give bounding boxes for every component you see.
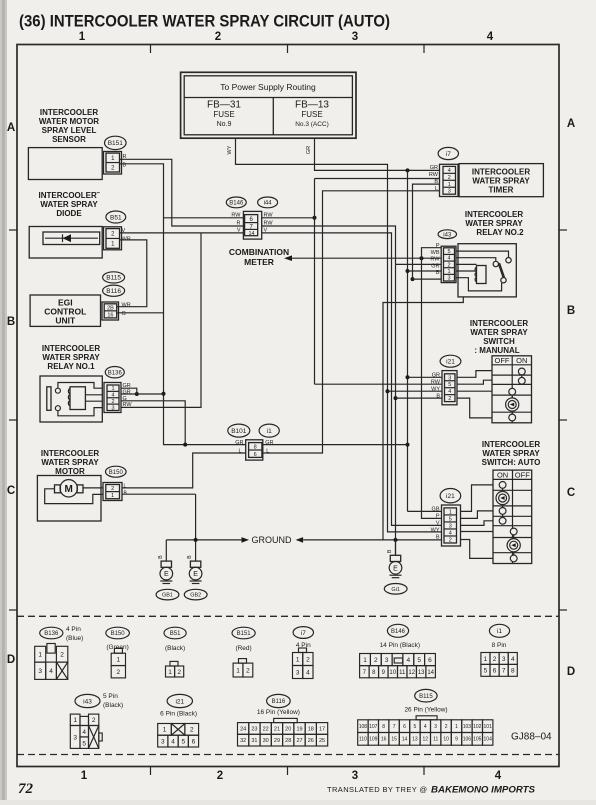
svg-text:101: 101	[484, 724, 493, 730]
legend oval B115	[415, 689, 437, 702]
svg-text:FUSE: FUSE	[301, 110, 322, 119]
wire RW to manual switch pin5	[315, 383, 443, 385]
svg-text:14: 14	[427, 670, 434, 676]
svg-text:16: 16	[381, 737, 387, 743]
svg-text:RW: RW	[429, 172, 439, 178]
svg-text:3: 3	[502, 656, 506, 663]
svg-text:13: 13	[418, 670, 425, 676]
relay2 contact lever	[456, 278, 502, 291]
svg-text:4: 4	[82, 729, 86, 736]
svg-text:(Black): (Black)	[165, 645, 185, 652]
svg-text:14: 14	[248, 231, 254, 237]
svg-text:SWITCH: SWITCH	[483, 337, 515, 346]
svg-text:E: E	[164, 571, 169, 578]
svg-text:TIMER: TIMER	[489, 186, 514, 195]
svg-text:B146: B146	[391, 629, 406, 635]
svg-text:3: 3	[38, 668, 42, 675]
svg-text:WATER SPRAY: WATER SPRAY	[472, 177, 530, 186]
svg-text:GR: GR	[306, 146, 312, 154]
wire B bus down	[395, 264, 397, 555]
motor internal wires	[45, 489, 103, 504]
svg-text:4: 4	[424, 724, 427, 730]
wire RW bus down	[314, 179, 316, 385]
svg-text:(Black): (Black)	[103, 702, 123, 709]
svg-text:4: 4	[449, 530, 452, 536]
legend connector B136 4 pin	[35, 646, 46, 662]
svg-text:1: 1	[484, 656, 488, 663]
svg-text:TRANSLATED BY TREY @: TRANSLATED BY TREY @	[327, 785, 428, 794]
svg-text:6: 6	[428, 657, 432, 664]
svg-text:WATER MOTOR: WATER MOTOR	[39, 117, 99, 126]
svg-text:1: 1	[448, 182, 451, 188]
svg-text:DIODE: DIODE	[56, 209, 82, 218]
svg-text:104: 104	[484, 737, 493, 743]
relay2 internals	[456, 251, 509, 257]
svg-text:(Blue): (Blue)	[66, 635, 83, 642]
svg-text:6 Pin (Black): 6 Pin (Black)	[160, 711, 197, 718]
svg-text:No.9: No.9	[217, 121, 232, 128]
svg-text:B115: B115	[419, 694, 433, 700]
svg-text:3: 3	[447, 276, 450, 282]
auto switch contacts ON column	[502, 488, 504, 491]
legend connector B151	[233, 663, 243, 677]
svg-text:OFF: OFF	[515, 470, 530, 479]
relay1 internals	[47, 387, 51, 411]
svg-text:4: 4	[448, 389, 451, 395]
svg-text:14 Pin (Black): 14 Pin (Black)	[380, 642, 420, 649]
motor box	[37, 476, 101, 522]
svg-text:4: 4	[448, 168, 451, 174]
svg-text:1: 1	[111, 386, 114, 392]
svg-text:WATER SPRAY: WATER SPRAY	[40, 200, 98, 209]
wire relay1 pin2 G	[121, 401, 185, 445]
svg-text:25: 25	[319, 738, 325, 744]
wire relay1 pin1 jumper	[121, 388, 137, 394]
legend connector i21 6 pin	[158, 724, 172, 736]
svg-text:1: 1	[447, 269, 450, 275]
ground oval GB2	[184, 589, 207, 600]
svg-text:108: 108	[359, 724, 368, 730]
sensor connector pins 1 2	[104, 152, 122, 175]
diode connector pins 2 1	[104, 227, 122, 250]
wire motor B to ground	[122, 493, 196, 495]
svg-text:2: 2	[306, 656, 310, 663]
svg-text:8: 8	[382, 724, 385, 730]
svg-text:B150: B150	[109, 470, 124, 476]
connector oval B150	[106, 466, 127, 477]
svg-text:GB2: GB2	[190, 593, 201, 599]
svg-text:1: 1	[111, 493, 114, 499]
legend connector B150	[111, 653, 125, 665]
svg-text:4: 4	[487, 31, 494, 43]
svg-text:1: 1	[163, 727, 167, 734]
svg-text:INTERCOOLER: INTERCOOLER	[465, 210, 523, 219]
svg-text:WB: WB	[431, 250, 440, 256]
svg-text:5 Pin: 5 Pin	[103, 693, 118, 700]
svg-text:2: 2	[217, 770, 223, 782]
svg-text:5: 5	[417, 657, 421, 664]
svg-text:4: 4	[171, 738, 175, 745]
svg-text:WATER SPRAY: WATER SPRAY	[482, 449, 540, 458]
svg-text:5: 5	[447, 249, 450, 255]
svg-text:32: 32	[240, 738, 246, 744]
svg-text:i7: i7	[446, 151, 451, 158]
svg-text:ON: ON	[497, 470, 508, 479]
svg-text:2: 2	[177, 669, 181, 676]
svg-text:No.3 (ACC): No.3 (ACC)	[295, 121, 329, 128]
connector oval B101	[228, 424, 250, 437]
svg-text:7: 7	[393, 724, 396, 730]
svg-text:RW: RW	[430, 257, 440, 263]
svg-text:WATER SPRAY: WATER SPRAY	[42, 353, 100, 362]
svg-text:2: 2	[190, 727, 194, 734]
svg-text:INTERCOOLER˜: INTERCOOLER˜	[39, 191, 100, 200]
wire motor L to B101	[122, 453, 246, 488]
svg-text:SENSOR: SENSOR	[52, 135, 86, 144]
legend connector i7	[293, 653, 303, 666]
legend connector B115 26 pin	[358, 720, 368, 733]
EGI connector pins 2B 16	[102, 302, 119, 320]
timer connector pins 4 2 1 3	[440, 164, 459, 196]
svg-text:30: 30	[263, 738, 269, 744]
svg-text:D: D	[567, 666, 575, 678]
legend oval B116	[267, 694, 291, 707]
svg-text:B101: B101	[231, 428, 247, 435]
svg-text:3: 3	[296, 669, 300, 676]
svg-text:WATER SPRAY: WATER SPRAY	[465, 219, 523, 228]
svg-text:B116: B116	[272, 699, 286, 705]
legend connector B116 16 pin	[238, 723, 249, 735]
svg-text:1: 1	[449, 509, 452, 515]
wire RW B146 pin7 right to relay2 pin2	[262, 226, 396, 264]
svg-text:A: A	[7, 122, 15, 134]
auto switch fan wires	[461, 485, 494, 512]
svg-text:INTERCOOLER: INTERCOOLER	[470, 319, 528, 328]
ground wire	[165, 540, 167, 561]
svg-text:2: 2	[117, 669, 121, 676]
ground oval GB1	[156, 589, 179, 600]
connector oval i21	[440, 355, 461, 367]
svg-text:102: 102	[473, 724, 482, 730]
relay no.2 box	[458, 244, 516, 297]
svg-text:INTERCOOLER: INTERCOOLER	[41, 449, 99, 458]
connector oval i21	[440, 489, 461, 503]
legend connector i1	[481, 653, 490, 665]
svg-text:: MANUNAL: : MANUNAL	[474, 346, 519, 355]
ground oval Gi1	[384, 584, 407, 595]
svg-text:24: 24	[240, 726, 246, 732]
motor M symbol	[60, 480, 77, 497]
svg-text:27: 27	[296, 738, 302, 744]
svg-text:B146: B146	[229, 201, 244, 207]
svg-text:B151: B151	[108, 140, 124, 147]
svg-text:4: 4	[111, 393, 114, 399]
manual switch connector pins 3 5 4 2	[442, 371, 457, 405]
connector oval i1	[259, 424, 279, 437]
svg-text:METER: METER	[244, 257, 274, 267]
connector oval i44	[258, 197, 278, 208]
svg-text:16: 16	[107, 312, 113, 318]
svg-text:4: 4	[447, 256, 450, 262]
svg-text:OFF: OFF	[495, 356, 510, 365]
grid ticks	[150, 45, 152, 54]
svg-text:22: 22	[263, 726, 269, 732]
svg-text:B115: B115	[106, 275, 121, 282]
svg-text:1: 1	[79, 31, 86, 43]
svg-text:B151: B151	[237, 631, 252, 637]
svg-text:INTERCOOLER: INTERCOOLER	[42, 344, 100, 353]
legend oval i7	[293, 627, 313, 639]
svg-text:WR: WR	[122, 303, 131, 309]
svg-text:2: 2	[448, 175, 451, 181]
svg-text:M: M	[65, 484, 73, 495]
svg-text:D: D	[7, 654, 15, 666]
svg-text:6: 6	[254, 452, 257, 458]
svg-text:SPRAY LEVEL: SPRAY LEVEL	[42, 126, 97, 135]
legend oval i43	[75, 694, 100, 707]
svg-text:5: 5	[414, 724, 417, 730]
svg-text:INTERCOOLER: INTERCOOLER	[40, 108, 98, 117]
connector oval B136	[105, 367, 124, 378]
wire GR to manual switch pin3	[408, 376, 443, 378]
svg-text:3: 3	[352, 31, 358, 43]
svg-text:RELAY NO.2: RELAY NO.2	[476, 228, 524, 237]
svg-text:4: 4	[49, 668, 53, 675]
svg-text:3: 3	[448, 375, 451, 381]
svg-text:19: 19	[296, 726, 302, 732]
legend oval B51	[164, 627, 186, 639]
relay1 coil	[70, 387, 85, 410]
svg-text:10: 10	[443, 737, 449, 743]
manual switch contacts	[521, 375, 523, 378]
svg-text:i43: i43	[443, 232, 452, 238]
svg-text:INTERCOOLER: INTERCOOLER	[482, 440, 540, 449]
svg-text:(36) INTERCOOLER WATER SPRAY C: (36) INTERCOOLER WATER SPRAY CIRCUIT (AU…	[19, 13, 390, 31]
svg-text:C: C	[7, 485, 15, 497]
svg-text:E: E	[193, 571, 198, 578]
svg-text:4 Pin: 4 Pin	[66, 626, 81, 633]
svg-text:3: 3	[352, 770, 358, 782]
svg-text:29: 29	[274, 738, 280, 744]
svg-text:2: 2	[111, 399, 114, 405]
svg-text:To Power Supply Routing: To Power Supply Routing	[220, 82, 316, 92]
ground symbol GB2	[190, 561, 200, 567]
svg-text:2: 2	[246, 667, 250, 674]
svg-text:B51: B51	[170, 631, 181, 637]
svg-text:7: 7	[502, 668, 506, 675]
svg-text:31: 31	[251, 738, 257, 744]
wire relay1 pin4 GR	[121, 393, 164, 395]
auto switch table	[493, 470, 532, 563]
svg-text:B: B	[7, 316, 15, 328]
connector oval B151	[105, 136, 127, 149]
svg-text:3: 3	[161, 738, 165, 745]
connector oval B51	[106, 211, 126, 223]
svg-text:28: 28	[285, 738, 291, 744]
svg-text:4: 4	[407, 657, 411, 664]
ground symbol GB1	[161, 561, 171, 567]
svg-text:5: 5	[181, 738, 185, 745]
svg-text:3: 3	[73, 734, 77, 741]
svg-text:6: 6	[403, 724, 406, 730]
ground bus with arrows	[166, 539, 241, 541]
legend oval i1	[489, 624, 509, 637]
svg-text:B116: B116	[106, 288, 121, 295]
svg-text:2: 2	[374, 657, 378, 664]
connector oval B146	[226, 197, 246, 208]
wire B relay2 pin3	[413, 278, 442, 280]
svg-text:12: 12	[423, 737, 429, 743]
wire WY to manual switch	[388, 390, 443, 392]
svg-text:1: 1	[168, 669, 172, 676]
legend connector B146 14 pin	[360, 654, 371, 666]
svg-text:(Red): (Red)	[235, 645, 251, 652]
svg-text:Gi1: Gi1	[391, 587, 400, 593]
wire P net relay2 pin5	[422, 248, 442, 519]
svg-text:16 Pin (Yellow): 16 Pin (Yellow)	[257, 709, 300, 716]
svg-text:17: 17	[319, 726, 325, 732]
svg-text:6: 6	[493, 668, 497, 675]
svg-text:i7: i7	[301, 630, 306, 637]
EGI control unit box	[30, 295, 100, 326]
svg-text:ON: ON	[516, 356, 527, 365]
svg-text:3: 3	[111, 405, 114, 411]
legend oval B151	[232, 627, 255, 639]
svg-text:i1: i1	[267, 428, 272, 435]
svg-text:23: 23	[251, 726, 257, 732]
legend connector i43 5 pin	[70, 714, 80, 725]
wire i1 GR right	[263, 444, 408, 446]
relay1 connector pins 1 4 2 3	[104, 383, 121, 413]
svg-text:26 Pin (Yellow): 26 Pin (Yellow)	[404, 707, 447, 714]
svg-text:9: 9	[455, 737, 458, 743]
legend oval B146	[387, 624, 408, 637]
svg-text:G: G	[122, 311, 126, 317]
wire B146 pin6 left	[164, 217, 245, 219]
svg-text:i1: i1	[497, 628, 502, 635]
svg-text:1: 1	[73, 717, 77, 724]
wire RW net B146 pin6 right	[262, 217, 315, 219]
wire GR to relay2 pin1	[408, 270, 442, 272]
svg-text:FUSE: FUSE	[213, 110, 234, 119]
svg-text:COMBINATION: COMBINATION	[229, 247, 289, 257]
auto switch connector pins 1 5 3 4 2	[442, 505, 461, 546]
wire B to manual switch pin2	[396, 397, 443, 399]
connector oval i7	[438, 147, 458, 159]
svg-text:103: 103	[463, 724, 472, 730]
wire diode V	[120, 232, 245, 234]
relay no.1 box	[40, 376, 102, 422]
svg-text:3: 3	[449, 523, 452, 529]
svg-text:4: 4	[495, 770, 502, 782]
svg-text:18: 18	[308, 726, 314, 732]
legend oval B150	[106, 627, 130, 639]
svg-text:1: 1	[455, 724, 458, 730]
svg-text:21: 21	[274, 726, 280, 732]
svg-text:i21: i21	[175, 698, 184, 705]
wire GR to auto switch pin1 GB	[408, 510, 442, 512]
svg-text:12: 12	[408, 670, 415, 676]
svg-text:FB—13: FB—13	[295, 100, 329, 111]
wire EGI G	[117, 312, 164, 314]
svg-text:1: 1	[236, 667, 240, 674]
svg-text:26: 26	[308, 738, 314, 744]
wire B timer pin1	[413, 184, 440, 279]
wire diode V branch to relay1 pin3	[121, 233, 201, 408]
svg-text:C: C	[567, 487, 575, 499]
svg-text:B51: B51	[110, 214, 122, 221]
auto switch contacts OFF column	[513, 535, 515, 539]
svg-text:2: 2	[447, 262, 450, 268]
svg-text:4: 4	[306, 669, 310, 676]
svg-text:2: 2	[448, 396, 451, 402]
svg-text:15: 15	[391, 737, 397, 743]
manual switch table	[492, 356, 532, 423]
svg-text:i21: i21	[446, 493, 455, 500]
svg-text:GROUND: GROUND	[252, 535, 292, 545]
ground wire	[195, 494, 197, 561]
svg-text:8 Pin: 8 Pin	[492, 642, 507, 649]
connector oval B116	[103, 285, 125, 296]
svg-text:2: 2	[493, 656, 497, 663]
svg-text:5: 5	[449, 516, 452, 522]
svg-text:107: 107	[369, 724, 378, 730]
sensor B151 box	[28, 148, 102, 180]
svg-text:20: 20	[285, 726, 291, 732]
svg-text:E: E	[393, 565, 398, 572]
svg-text:B150: B150	[111, 631, 126, 637]
intercooler water spray timer box	[459, 164, 543, 197]
connector oval i43	[438, 230, 456, 239]
manual switch fan wires	[457, 371, 492, 378]
ground symbol Gi1	[390, 555, 400, 561]
svg-text:2: 2	[215, 31, 221, 43]
svg-text:109: 109	[369, 737, 378, 743]
diode box	[29, 227, 102, 259]
svg-text:10: 10	[389, 670, 396, 676]
wire diode WR to EGI WR	[117, 240, 147, 307]
svg-text:BAKEMONO IMPORTS: BAKEMONO IMPORTS	[431, 785, 536, 796]
svg-text:MOTOR: MOTOR	[55, 467, 85, 476]
svg-text:SWITCH: AUTO: SWITCH: AUTO	[482, 458, 541, 467]
svg-text:B136: B136	[44, 631, 59, 637]
wire sensor R	[119, 159, 245, 226]
connector B146/i44 pins 6 7 14	[243, 211, 261, 239]
svg-text:A: A	[567, 118, 575, 130]
wire relay2 contact output down to ground bus	[383, 297, 463, 540]
svg-text:11: 11	[433, 737, 438, 743]
svg-text:8: 8	[511, 668, 515, 675]
svg-text:14: 14	[402, 737, 408, 743]
svg-text:1: 1	[81, 770, 88, 782]
svg-text:(Green): (Green)	[106, 644, 128, 651]
dashed separator	[17, 615, 559, 617]
svg-text:FB—31: FB—31	[207, 100, 241, 111]
svg-text:i21: i21	[446, 359, 455, 366]
svg-text:5: 5	[484, 668, 488, 675]
svg-text:106: 106	[463, 737, 472, 743]
svg-text:11: 11	[399, 670, 406, 676]
svg-text:1: 1	[363, 657, 367, 664]
svg-text:4: 4	[511, 656, 515, 663]
svg-text:B136: B136	[108, 370, 123, 376]
svg-text:110: 110	[359, 737, 367, 743]
svg-text:INTERCOOLER: INTERCOOLER	[472, 168, 530, 177]
svg-text:1: 1	[296, 656, 300, 663]
svg-text:2: 2	[60, 652, 64, 659]
svg-text:GJ88–04: GJ88–04	[511, 732, 552, 743]
svg-text:2: 2	[449, 537, 452, 543]
